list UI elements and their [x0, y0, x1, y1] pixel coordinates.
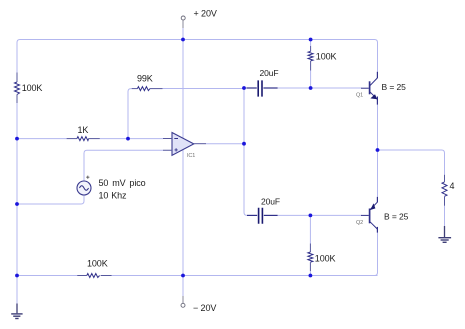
- wire lower 100K bottom stub: [309, 271, 311, 276]
- junction dot -20V tap on bottom rail: [181, 274, 185, 278]
- wire top rail (y=39.5): [20, 40, 378, 73]
- svg-text:B = 25: B = 25: [384, 212, 409, 222]
- svg-text:B = 25: B = 25: [382, 82, 407, 92]
- wire Q2 collector down to bottom rail corner: [375, 233, 378, 276]
- svg-text:4: 4: [450, 181, 455, 191]
- source V1 sine 50mV 10kHz: [77, 176, 91, 195]
- resistor 100K (bottom rail): [77, 274, 111, 278]
- wire left rail (x=17, top segment above 100K): [17, 40, 20, 73]
- wire plus input (y=150.2 from sine corner to op-amp): [84, 150, 163, 153]
- resistor 99K (feedback): [132, 87, 163, 91]
- resistor 100K (upper bias, right): [308, 46, 313, 71]
- wire Q1 emitter down to output node (x=377.5): [377, 105, 379, 151]
- resistor 100K (left, in left rail): [15, 73, 20, 104]
- junction dot upper 100K / top rail: [309, 38, 313, 42]
- wire bottom rail (y=275.5): [17, 275, 378, 277]
- resistor 1K (series input): [67, 137, 100, 141]
- wire +20V supply drop (x=183 from terminal to top rail): [182, 21, 184, 29]
- wire lower 100K top stub (x=310.4): [309, 215, 311, 243]
- wire upper cap right to 100K node to Q1 base (y=88): [278, 87, 362, 89]
- junction dot output node (Q1/Q2 emitters / load): [376, 148, 380, 152]
- svg-text:20uF: 20uF: [261, 197, 280, 207]
- junction dot upper 100K / Q1 base wire: [309, 86, 313, 90]
- transistor Q1 (NPN): [361, 72, 377, 105]
- junction dot op-amp output node upper (cap branch): [242, 86, 246, 90]
- ground (right, load): [438, 226, 451, 242]
- wire output to load (y=150): [378, 150, 445, 175]
- svg-text:50 mV pico: 50 mV pico: [99, 178, 146, 188]
- ground (left, bottom rail): [11, 304, 22, 319]
- terminal -20V: [181, 303, 185, 307]
- svg-text:100K: 100K: [22, 83, 43, 93]
- wire left rail (x=17, below 100K down to bottom rail): [16, 103, 18, 276]
- junction dot lower 100K / Q2 base wire: [309, 214, 313, 218]
- wire 99K to op-amp output node (y=88.5): [163, 88, 245, 90]
- terminal +20V: [181, 16, 185, 20]
- svg-text:Q2: Q2: [356, 220, 363, 226]
- junction dot left rail / sine return: [15, 202, 19, 206]
- junction dot left rail / bottom rail / ground: [15, 274, 19, 278]
- capacitor 20uF (lower): [247, 208, 278, 224]
- wire left ground drop (x=17 below bottom rail): [16, 276, 18, 304]
- capacitor 20uF (upper): [247, 80, 278, 96]
- svg-text:+ 20V: + 20V: [194, 8, 217, 18]
- wire upper 100K bottom stub: [310, 71, 312, 89]
- wire lower cap right to lower 100K node to Q2 base (y=215.4): [278, 214, 362, 216]
- junction dot lower 100K / bottom rail: [309, 274, 313, 278]
- wire sine source top (x=84): [83, 153, 85, 181]
- junction dot +20V tap on top rail: [181, 38, 185, 42]
- svg-text:100K: 100K: [87, 259, 108, 269]
- svg-text:20uF: 20uF: [260, 68, 279, 78]
- svg-text:− 20V: − 20V: [193, 303, 216, 313]
- transistor Q2 (PNP): [361, 197, 377, 233]
- wire op-amp supply line (x=183 from top rail to bottom rail): [182, 40, 184, 276]
- junction dot feedback node (1K/99K/op-amp minus): [126, 137, 130, 141]
- svg-text:100K: 100K: [315, 254, 336, 264]
- svg-text:Q1: Q1: [356, 93, 363, 99]
- wire 1K to feedback node to op-amp minus input: [100, 138, 163, 140]
- svg-text:10 Khz: 10 Khz: [99, 191, 128, 201]
- svg-text:1K: 1K: [78, 125, 89, 135]
- wire upper cap left (op-amp node to cap) light underlay: [244, 87, 247, 89]
- wire 1K input (y=138.6 from left rail to 1K): [17, 138, 67, 140]
- junction dot left rail / 1K: [15, 137, 19, 141]
- wire output node vertical (x=244 from y=88 to lower cap corner): [244, 88, 247, 215]
- op-amp IC1: [163, 133, 206, 156]
- resistor 100K (lower bias, right): [308, 244, 313, 272]
- wire -20V stub (x=183 below bottom rail): [182, 276, 184, 297]
- svg-text:100K: 100K: [316, 52, 337, 62]
- resistor 4 (load): [442, 175, 447, 206]
- wire upper 100K top stub (x=310.6): [310, 40, 312, 47]
- wire op-amp output (light part to node): [206, 143, 244, 145]
- wire feedback vertical (x=128, 99K down to node): [128, 89, 132, 139]
- wire sine source bottom return to left rail: [17, 195, 84, 204]
- junction dot op-amp output: [242, 142, 246, 146]
- wire output node down to Q2 emitter stub: [377, 150, 379, 197]
- svg-text:99K: 99K: [137, 74, 153, 84]
- wire load resistor to ground (x=444.5): [444, 206, 446, 226]
- svg-text:IC1: IC1: [187, 153, 195, 159]
